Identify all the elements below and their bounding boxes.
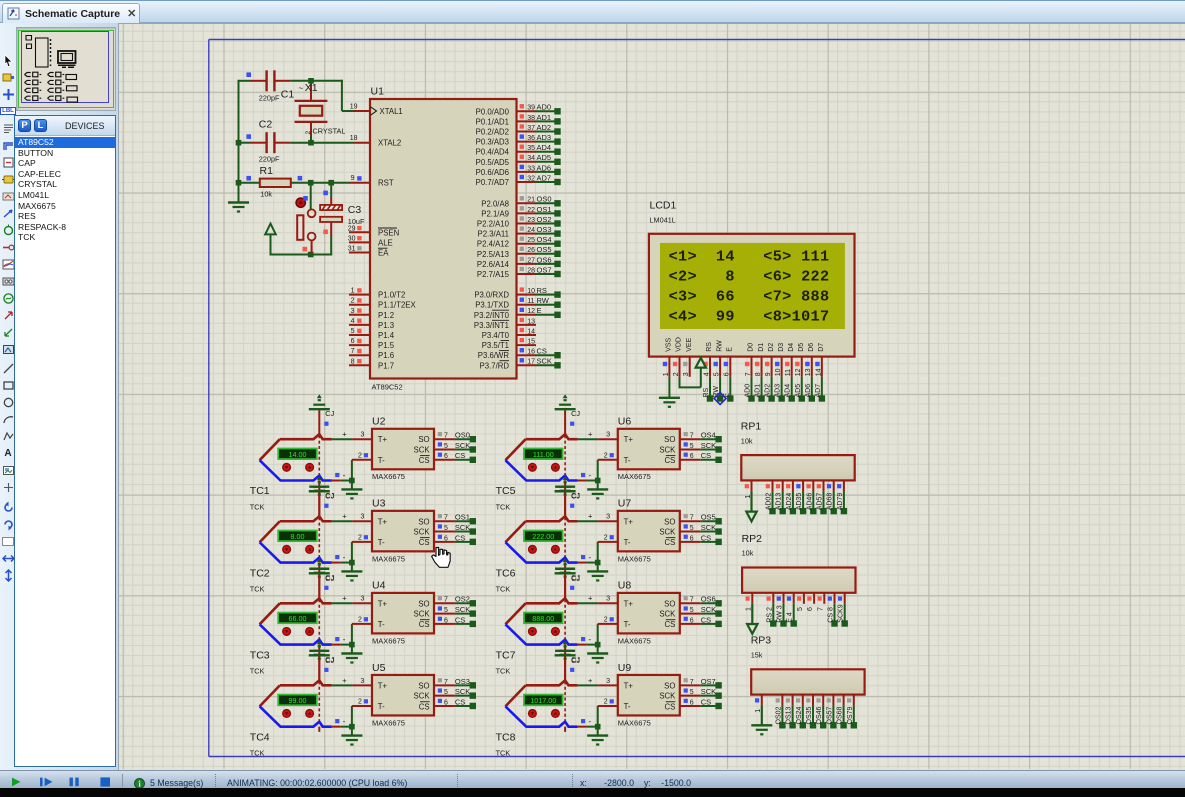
svg-text:P1.2: P1.2 [378, 311, 394, 320]
mouse cursor [432, 548, 451, 568]
U1 pin 16 wire net CS [517, 347, 561, 359]
LCD1 pin 11 D4 [785, 357, 795, 402]
svg-text:-: - [588, 470, 591, 480]
svg-text:6: 6 [444, 453, 448, 460]
svg-text:1017.00: 1017.00 [530, 696, 556, 705]
svg-text:AD1: AD1 [755, 384, 762, 398]
svg-text:RS 2: RS 2 [766, 607, 773, 623]
U1 pin 35 wire net AD4 [517, 143, 561, 155]
U1 pin 22 wire net OS1 [517, 205, 561, 217]
svg-text:U7: U7 [618, 498, 632, 510]
RP2 pin 8 net CS 8 [828, 593, 838, 627]
svg-text:D1: D1 [758, 343, 765, 352]
LCD1 pin 9 D2 [765, 357, 775, 402]
U1 pin 15 stub [517, 338, 537, 346]
RP3 pin 2 net OS02 [775, 695, 785, 729]
svg-text:T-: T- [378, 538, 385, 547]
svg-text:RP2: RP2 [742, 533, 763, 545]
svg-text:12: 12 [795, 368, 802, 376]
svg-text:<3> 66 <7> 888: <3> 66 <7> 888 [669, 288, 830, 306]
svg-text:EA: EA [378, 249, 389, 258]
svg-text:TC7: TC7 [496, 649, 516, 661]
svg-text:14.00: 14.00 [289, 450, 307, 459]
svg-text:VDD: VDD [676, 337, 683, 352]
svg-text:<1> 14 <5> 111: <1> 14 <5> 111 [669, 247, 830, 265]
svg-text:P3.1/TXD: P3.1/TXD [475, 301, 509, 310]
svg-text:AD35: AD35 [796, 493, 803, 511]
svg-text:35: 35 [527, 145, 535, 152]
svg-text:T+: T+ [378, 517, 388, 526]
svg-text:5: 5 [444, 525, 448, 532]
U1 pin 32 wire net AD7 [517, 173, 561, 185]
svg-text:OS13: OS13 [786, 706, 793, 724]
thermocouple TC5 (TCK) [496, 434, 578, 511]
wire TC1- to U2 T- [332, 460, 355, 484]
U3 pin 7 wire net OS1 [434, 513, 476, 525]
svg-text:T-: T- [378, 456, 385, 465]
svg-text:+: + [588, 594, 593, 603]
svg-text:5: 5 [690, 607, 694, 614]
svg-text:P2.1/A9: P2.1/A9 [481, 209, 509, 218]
svg-text:P1.4: P1.4 [378, 331, 395, 340]
svg-text:RP3: RP3 [751, 635, 772, 647]
thermocouple TC1 (TCK) [250, 434, 332, 511]
svg-text:+: + [588, 430, 593, 439]
U2 pin 7 wire net OS0 [434, 431, 476, 443]
svg-text:14: 14 [527, 328, 535, 335]
svg-text:7: 7 [444, 515, 448, 522]
svg-text:SO: SO [664, 435, 675, 444]
svg-text:AD57: AD57 [817, 493, 824, 511]
U6 pin 6 wire net CS [680, 451, 722, 463]
U5 pin 6 wire net CS [434, 697, 476, 709]
svg-text:6: 6 [690, 699, 694, 706]
svg-text:R1: R1 [260, 165, 274, 177]
svg-text:+: + [342, 676, 347, 685]
ground CJ (below TC5) [555, 481, 580, 517]
svg-text:T-: T- [624, 456, 631, 465]
U6 pin 5 wire net SCK [680, 441, 722, 453]
ground (U3 T- junction) [341, 563, 362, 581]
svg-text:VEE: VEE [686, 337, 693, 351]
svg-text:T+: T+ [624, 681, 634, 690]
svg-text:CJ: CJ [325, 573, 334, 582]
ground (LCD VSS) [659, 398, 680, 407]
svg-text:RS: RS [703, 387, 710, 397]
svg-text:+: + [588, 512, 593, 521]
svg-text:3: 3 [606, 432, 610, 439]
wire TC3- to U4 T- [332, 624, 355, 647]
U2 pin 6 wire net CS [434, 451, 476, 463]
svg-text:6: 6 [690, 453, 694, 460]
svg-text:5: 5 [444, 607, 448, 614]
resistor pack RP2 (10k) [742, 533, 856, 593]
U8 pin 5 wire net SCK [680, 605, 722, 617]
sheet border [209, 40, 1185, 757]
svg-text:RW 3: RW 3 [777, 605, 784, 622]
power arrow (button net) [265, 224, 276, 235]
RP3 pin 1 [751, 695, 772, 735]
LCD1 pin 4 RS [703, 357, 713, 402]
svg-text:6: 6 [444, 617, 448, 624]
U1 pin 38 wire net AD1 [517, 113, 561, 125]
wire TC7- to U8 T- [578, 624, 601, 647]
svg-text:OS57: OS57 [826, 706, 833, 724]
U1 pin 11 wire net RW [517, 296, 561, 308]
svg-text:3: 3 [606, 678, 610, 685]
svg-text:10: 10 [775, 368, 782, 376]
svg-text:7: 7 [444, 679, 448, 686]
svg-text:T+: T+ [624, 599, 634, 608]
RP1 pin 8 net AD68 [827, 480, 837, 514]
svg-text:SO: SO [664, 599, 675, 608]
svg-text:T+: T+ [624, 435, 634, 444]
RP1 pin 2 net AD02 [766, 480, 776, 514]
ground (U8 T- junction) [587, 645, 608, 663]
wire TC8- to U9 T- [578, 706, 601, 729]
svg-text:17: 17 [527, 359, 535, 366]
U3 pin 5 wire net SCK [434, 523, 476, 535]
svg-text:LM041L: LM041L [650, 215, 676, 224]
svg-text:1: 1 [663, 372, 670, 376]
svg-text:P3.0/RXD: P3.0/RXD [474, 291, 509, 300]
svg-text:ALE: ALE [378, 238, 393, 247]
U1 pin 27 wire net OS6 [517, 255, 561, 267]
svg-text:6: 6 [690, 617, 694, 624]
ground CJ (below TC1) [309, 481, 334, 517]
svg-text:+: + [342, 512, 347, 521]
svg-text:P0.0/AD0: P0.0/AD0 [476, 107, 510, 116]
svg-text:AD79: AD79 [837, 493, 844, 511]
RP3 pin 5 net OS35 [806, 695, 816, 729]
ground (U6 T- junction) [587, 481, 608, 499]
svg-text:RW: RW [716, 340, 723, 352]
wire net RST (R1 to U1 pin 9) [236, 180, 349, 186]
svg-text:3: 3 [361, 514, 365, 521]
svg-text:AD13: AD13 [776, 493, 783, 511]
svg-text:7: 7 [690, 597, 694, 604]
RP3 pin 8 net OS68 [837, 695, 847, 729]
svg-text:P3.2/INT0: P3.2/INT0 [474, 311, 510, 320]
U8 pin 7 wire net OS6 [680, 595, 722, 607]
wire net XTAL2 (C2 row to U1 pin 18) [236, 140, 354, 146]
svg-text:SCK: SCK [659, 446, 676, 455]
svg-text:2: 2 [673, 372, 680, 376]
svg-text:13: 13 [527, 318, 535, 325]
svg-text:P3.4/T0: P3.4/T0 [482, 331, 510, 340]
svg-text:18: 18 [350, 135, 358, 142]
U1 pin 33 wire net AD6 [517, 163, 561, 175]
svg-text:D5: D5 [798, 343, 805, 352]
RP2 pin 6 net 6 [807, 593, 814, 611]
U1 pin 23 wire net OS2 [517, 215, 561, 227]
svg-text:SO: SO [418, 681, 429, 690]
svg-text:3: 3 [683, 372, 690, 376]
svg-text:23: 23 [527, 217, 535, 224]
svg-text:2: 2 [305, 131, 312, 135]
U1 pin 21 wire net OS0 [517, 195, 561, 207]
svg-text:CRYSTAL: CRYSTAL [313, 126, 346, 135]
svg-text:SCK9: SCK9 [838, 604, 845, 622]
wire TC2- to U3 T- [332, 542, 355, 566]
svg-text:U3: U3 [372, 498, 386, 510]
svg-text:LCD1: LCD1 [650, 200, 677, 212]
svg-text:TC4: TC4 [250, 731, 270, 743]
LCD1 pin 3 VEE [683, 357, 690, 377]
svg-text:TCK: TCK [250, 749, 265, 758]
svg-text:10k: 10k [742, 549, 754, 558]
svg-text:T-: T- [378, 702, 385, 711]
svg-text:CS: CS [419, 456, 430, 465]
thermocouple TC6 (TCK) [496, 516, 578, 593]
svg-text:39: 39 [527, 105, 535, 112]
svg-text:SCK: SCK [659, 692, 676, 701]
svg-text:6: 6 [444, 535, 448, 542]
wire TC7+ to U8 T+ [578, 594, 599, 604]
svg-text:XTAL2: XTAL2 [378, 139, 401, 148]
RP3 pin 6 net OS46 [816, 695, 826, 729]
svg-text:15: 15 [527, 339, 535, 346]
svg-text:P2.4/A12: P2.4/A12 [477, 240, 509, 249]
thermocouple interface U4 MAX6675 [352, 580, 434, 646]
svg-text:-: - [588, 634, 591, 644]
U1 pin 17 wire net SCK [517, 357, 561, 369]
svg-text:AD2: AD2 [765, 384, 772, 398]
RP1 pin 4 net AD24 [786, 480, 796, 514]
svg-text:P1.7: P1.7 [378, 361, 394, 370]
svg-text:25: 25 [527, 237, 535, 244]
svg-text:T+: T+ [378, 681, 388, 690]
RP2 pin 7 net 7 [817, 593, 824, 611]
svg-text:7: 7 [745, 372, 752, 376]
LCD1 pin 7 D0 [745, 357, 755, 402]
svg-text:8: 8 [755, 372, 762, 376]
svg-text:U5: U5 [372, 662, 386, 674]
svg-text:222.00: 222.00 [532, 532, 554, 541]
svg-text:2: 2 [358, 699, 362, 706]
U4 pin 6 wire net CS [434, 615, 476, 627]
svg-text:TC5: TC5 [496, 485, 516, 497]
svg-text:7: 7 [351, 348, 355, 355]
svg-text:7: 7 [444, 597, 448, 604]
svg-text:CJ: CJ [325, 409, 334, 418]
svg-text:<2> 8 <6> 222: <2> 8 <6> 222 [669, 267, 830, 285]
RP3 pin 7 net OS57 [826, 695, 836, 729]
svg-text:5: 5 [690, 689, 694, 696]
thermocouple interface U6 MAX6675 [598, 416, 680, 482]
svg-text:T-: T- [624, 620, 631, 629]
wire TC1+ to U2 T+ [332, 430, 353, 440]
svg-text:P3.3/INT1: P3.3/INT1 [474, 321, 509, 330]
ground CJ (above TC7) [555, 558, 581, 598]
ground CJ (below TC7) [555, 645, 580, 681]
svg-text:AD7: AD7 [815, 384, 822, 398]
svg-text:29: 29 [348, 225, 356, 232]
LCD1 pin 1 VSS [663, 357, 670, 398]
svg-text:66.00: 66.00 [289, 614, 307, 623]
svg-text:2: 2 [604, 534, 608, 541]
svg-text:12: 12 [527, 308, 535, 315]
svg-text:OS35: OS35 [806, 706, 813, 724]
U5 pin 5 wire net SCK [434, 687, 476, 699]
LCD1 pin 5 RW [713, 357, 723, 402]
svg-text:TC8: TC8 [496, 731, 516, 743]
svg-text:6: 6 [351, 338, 355, 345]
svg-text:AD68: AD68 [827, 493, 834, 511]
svg-text:TC2: TC2 [250, 567, 270, 579]
svg-text:AD24: AD24 [786, 493, 793, 511]
svg-text:~: ~ [299, 84, 304, 93]
svg-text:P1.5: P1.5 [378, 341, 395, 350]
U1 pin 28 wire net OS7 [517, 265, 561, 277]
svg-text:RS: RS [706, 342, 713, 352]
svg-text:D3: D3 [778, 343, 785, 352]
svg-text:P2.6/A14: P2.6/A14 [477, 260, 510, 269]
svg-text:P0.2/AD2: P0.2/AD2 [476, 128, 509, 137]
svg-text:30: 30 [348, 235, 356, 242]
svg-text:27: 27 [527, 257, 535, 264]
svg-text:+: + [342, 594, 347, 603]
svg-text:3: 3 [361, 678, 365, 685]
svg-text:10k: 10k [741, 436, 753, 445]
svg-text:P0.5/AD5: P0.5/AD5 [476, 158, 510, 167]
wire stub below TC8 [564, 727, 566, 732]
svg-text:28: 28 [527, 267, 535, 274]
svg-text:OS79: OS79 [847, 706, 854, 724]
svg-text:9: 9 [765, 372, 772, 376]
svg-text:888.00: 888.00 [532, 614, 554, 623]
svg-text:SCK: SCK [659, 528, 676, 537]
svg-text:P1.6: P1.6 [378, 351, 394, 360]
svg-text:MAX6675: MAX6675 [372, 718, 405, 727]
capacitor C1 220pF [246, 70, 294, 102]
crystal X1 [295, 81, 346, 143]
resistor pack RP1 (10k) [741, 421, 855, 481]
U4 pin 7 wire net OS2 [434, 595, 476, 607]
ground CJ (above TC8) [555, 640, 581, 680]
LCD1 pin 13 D6 [805, 357, 815, 402]
svg-text:11: 11 [785, 369, 792, 376]
RP1 pin 1 [745, 480, 757, 521]
svg-text:6: 6 [807, 607, 814, 611]
svg-text:AD4: AD4 [785, 384, 792, 398]
wire TC3+ to U4 T+ [332, 594, 353, 604]
svg-text:P3.7/RD: P3.7/RD [480, 361, 510, 370]
svg-text:AD46: AD46 [806, 493, 813, 511]
capacitor C3 10uF (electrolytic) [320, 191, 365, 237]
svg-text:16: 16 [527, 349, 535, 356]
wire stub below TC4 [318, 727, 320, 732]
svg-text:-: - [343, 552, 346, 562]
svg-text:P3.5/T1: P3.5/T1 [482, 341, 509, 350]
ground CJ (below TC6) [555, 563, 580, 599]
svg-text:SO: SO [418, 517, 429, 526]
svg-text:32: 32 [527, 175, 535, 182]
ground CJ (above TC1) [309, 394, 335, 434]
svg-text:14: 14 [815, 368, 822, 376]
microcontroller U1 AT89C52 [348, 86, 517, 392]
svg-text:TCK: TCK [250, 502, 265, 511]
svg-text:AD0: AD0 [745, 384, 752, 398]
svg-text:111.00: 111.00 [533, 450, 554, 459]
U9 pin 6 wire net CS [680, 697, 722, 709]
U8 pin 6 wire net CS [680, 615, 722, 627]
svg-text:P0.7/AD7: P0.7/AD7 [476, 178, 509, 187]
U1 pin 31 EA [349, 252, 370, 254]
svg-text:24: 24 [527, 227, 535, 234]
svg-text:-: - [343, 634, 346, 644]
svg-text:MAX6675: MAX6675 [618, 636, 651, 645]
wire button branch [310, 183, 312, 210]
svg-text:TCK: TCK [496, 667, 511, 676]
RP1 pin 7 net AD57 [817, 480, 827, 514]
LCD1 pin 12 D5 [795, 357, 805, 402]
svg-text:P0.6/AD6: P0.6/AD6 [476, 168, 509, 177]
RP1 pin 5 net AD35 [796, 480, 806, 514]
svg-text:CJ: CJ [571, 409, 580, 418]
svg-text:2: 2 [604, 617, 608, 624]
U4 pin 5 wire net SCK [434, 605, 476, 617]
svg-text:D4: D4 [788, 343, 795, 352]
svg-text:SO: SO [418, 599, 429, 608]
svg-text:3: 3 [606, 514, 610, 521]
svg-text:CJ: CJ [571, 655, 580, 664]
capacitor C2 220pF [246, 118, 290, 163]
svg-text:SCK: SCK [414, 528, 431, 537]
svg-text:P0.3/AD3: P0.3/AD3 [476, 138, 509, 147]
ground (U9 T- junction) [587, 727, 608, 745]
thermocouple TC4 (TCK) [250, 680, 332, 757]
U1 pin 36 wire net AD3 [517, 133, 561, 145]
svg-text:220pF: 220pF [259, 155, 280, 164]
svg-text:11: 11 [527, 298, 534, 305]
resistor R1 10k [246, 165, 302, 199]
LCD1 pin 8 D1 [755, 357, 765, 402]
svg-text:MAX6675: MAX6675 [618, 472, 651, 481]
thermocouple TC3 (TCK) [250, 598, 332, 675]
RP2 pin 9 net SCK9 [838, 593, 848, 627]
svg-text:TCK: TCK [496, 584, 511, 593]
U1 pin 14 stub [517, 328, 537, 336]
svg-text:6: 6 [690, 535, 694, 542]
svg-text:-: - [588, 552, 591, 562]
resistor pack RP3 (15k) [751, 635, 865, 695]
thermocouple TC8 (TCK) [496, 680, 578, 757]
wire TC6- to U7 T- [578, 542, 601, 566]
U1 pin 12 wire net E [517, 306, 561, 318]
U1 pin 37 wire net AD2 [517, 123, 561, 135]
svg-text:X1: X1 [305, 82, 318, 94]
svg-text:P2.3/A11: P2.3/A11 [478, 230, 510, 239]
svg-text:MAX6675: MAX6675 [372, 554, 405, 563]
svg-text:P1.3: P1.3 [378, 321, 394, 330]
U1 pin 4 P1.3 [349, 324, 370, 326]
U2 pin 5 wire net SCK [434, 441, 476, 453]
U1 pin 30 ALE [349, 241, 370, 243]
svg-text:7: 7 [444, 433, 448, 440]
U1 pin 7 P1.6 [349, 354, 370, 356]
svg-text:5: 5 [690, 525, 694, 532]
svg-text:31: 31 [348, 246, 356, 253]
U1 pin 25 wire net OS4 [517, 235, 561, 247]
ground CJ (below TC3) [309, 645, 334, 681]
svg-text:<4> 99 <8>1017: <4> 99 <8>1017 [669, 308, 830, 326]
svg-text:OS68: OS68 [837, 706, 844, 724]
svg-text:26: 26 [527, 247, 535, 254]
U1 pin 6 P1.5 [349, 344, 370, 346]
thermocouple TC2 (TCK) [250, 516, 332, 593]
svg-text:D0: D0 [748, 343, 755, 352]
